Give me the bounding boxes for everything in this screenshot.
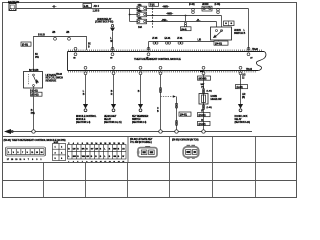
horn relay feed — [95, 18, 115, 50]
horn high/low H1 — [199, 94, 208, 105]
module bottom pins — [84, 66, 242, 74]
connector box E-01 inline — [83, 4, 92, 8]
connector table B — [53, 144, 66, 161]
svg-text:JT-05: JT-05 — [152, 38, 158, 40]
svg-text:CYL SW (IN TCH/REL): CYL SW (IN TCH/REL) — [130, 142, 152, 144]
ground bus wire — [7, 131, 252, 133]
column x240 door lock relay — [240, 75, 242, 105]
svg-text:10A: 10A — [138, 26, 142, 29]
horn sw connector face — [183, 145, 199, 159]
svg-text:W/Y: W/Y — [200, 71, 204, 73]
module top pins — [74, 47, 250, 55]
svg-text:(E-02): (E-02) — [22, 43, 28, 46]
label box A-05 — [236, 85, 248, 89]
svg-text:MODULE: MODULE — [76, 119, 86, 121]
liftgate connector face — [137, 146, 157, 157]
liftgate key cylinder switch S2 — [24, 70, 43, 88]
svg-text:W: W — [122, 156, 124, 158]
svg-text:KEY REMINDER: KEY REMINDER — [132, 116, 149, 118]
svg-text:(1-01): (1-01) — [207, 91, 213, 93]
inline connector 2cell box — [224, 21, 235, 26]
svg-text:(SECTION 2-4): (SECTION 2-4) — [132, 121, 146, 124]
bus junction x33 — [32, 130, 35, 133]
dashed link — [161, 96, 174, 98]
theft-deterrent control module U1 — [56, 49, 266, 76]
svg-text:BW: BW — [73, 156, 76, 158]
svg-text:JT-01: JT-01 — [177, 38, 183, 40]
bus junction x160 — [159, 130, 162, 133]
svg-text:TB-03: TB-03 — [56, 74, 63, 76]
bus junction x176 — [175, 130, 178, 133]
ground symbol — [4, 129, 11, 134]
column x160 ground path — [160, 75, 162, 132]
label box E-02 — [21, 42, 31, 46]
wire row y22 — [186, 21, 217, 23]
svg-text:(24-01): (24-01) — [199, 114, 206, 117]
connector F-02 — [189, 4, 195, 14]
connector drop JT-05 — [152, 38, 158, 44]
svg-text:TB-02: TB-02 — [252, 49, 259, 51]
svg-text:(1-01): (1-01) — [207, 107, 213, 109]
svg-text:(24-0): (24-0) — [181, 28, 187, 31]
svg-text:SWITCH: SWITCH — [234, 32, 243, 35]
svg-text:THEFT-DETERRENT CONTROL MODULE: THEFT-DETERRENT CONTROL MODULE — [134, 57, 181, 61]
output column x140.5 — [140, 75, 142, 105]
svg-text:(SECTION 4-24): (SECTION 4-24) — [235, 121, 251, 124]
svg-text:(24-01): (24-01) — [180, 113, 187, 116]
svg-text:(5X-02): (5X-02) — [31, 93, 38, 96]
svg-text:LW: LW — [95, 149, 98, 151]
output column x85.5 — [85, 75, 87, 105]
svg-text:W/Y: W/Y — [201, 84, 205, 86]
bottom grid — [3, 163, 297, 198]
svg-text:BW: BW — [113, 149, 116, 151]
svg-text:(A-05): (A-05) — [237, 86, 243, 89]
caption separator — [3, 136, 297, 138]
junction block boundary (dashed) — [152, 5, 154, 28]
svg-text:TB-04: TB-04 — [246, 68, 253, 71]
label box 24-01 — [179, 112, 191, 116]
svg-text:LW: LW — [86, 156, 89, 158]
fuse 15A row y8.5 — [137, 4, 147, 11]
svg-text:(24-02): (24-02) — [215, 42, 222, 45]
wire to ground bus — [33, 86, 35, 131]
label box 24-02 horn col — [198, 121, 211, 125]
connector drop EX-01 — [165, 38, 172, 44]
svg-text:(W2-05): (W2-05) — [199, 77, 207, 80]
svg-text:E-01 B: E-01 B — [38, 34, 45, 37]
svg-text:(5X-02) LIFTGATE KEY: (5X-02) LIFTGATE KEY — [130, 138, 153, 141]
svg-text:–B–: –B– — [52, 6, 57, 9]
table band dividers — [212, 137, 214, 163]
svg-text:E-01: E-01 — [150, 4, 155, 7]
wire row B to horn switch — [147, 15, 222, 17]
column x176 ground path — [176, 97, 178, 132]
svg-text:L/R: L/R — [242, 94, 246, 96]
svg-text:DOOR LOCK: DOOR LOCK — [235, 116, 248, 118]
svg-text:MODULE CONTROL: MODULE CONTROL — [76, 116, 97, 118]
svg-text:LW: LW — [73, 149, 76, 151]
fuse feed bus — [130, 9, 138, 22]
svg-text:L/G: L/G — [242, 75, 246, 77]
connector label box E-01 — [149, 3, 159, 7]
svg-text:HIGH/LOW: HIGH/LOW — [211, 99, 223, 101]
svg-text:HEADLIGHT: HEADLIGHT — [104, 115, 117, 118]
svg-text:1.25 B: 1.25 B — [93, 9, 100, 12]
svg-text:J/B: J/B — [52, 32, 56, 34]
column x203 horn high/low — [203, 75, 205, 132]
label box 24-01 horn col — [198, 113, 211, 117]
svg-text:HORN: HORN — [202, 4, 209, 6]
svg-text:–W/R–: –W/R– — [162, 6, 170, 9]
connector table C — [68, 145, 127, 160]
svg-text:(B): (B) — [242, 97, 245, 99]
horn switch S1 — [211, 27, 232, 42]
svg-text:RELAY: RELAY — [235, 118, 243, 121]
wire row C — [147, 21, 186, 23]
svg-text:SWITCH: SWITCH — [132, 119, 141, 121]
wire battery branch — [34, 37, 87, 72]
svg-text:HORN: HORN — [211, 96, 218, 98]
header cell horn sw connector — [169, 137, 171, 163]
label box 24-02 — [181, 27, 192, 31]
connector table A — [6, 147, 46, 156]
wire battery feed — [16, 8, 130, 10]
svg-text:EX-01: EX-01 — [165, 38, 172, 40]
label box 24-02 under switch — [214, 41, 228, 45]
header cell liftgate connector — [127, 137, 129, 163]
connector drop JT-01 — [177, 38, 183, 44]
output column x113.5 — [113, 75, 115, 105]
svg-text:J/B: J/B — [66, 32, 70, 34]
svg-text:(24-02): (24-02) — [199, 123, 206, 126]
svg-text:REVERSE: REVERSE — [46, 80, 57, 83]
svg-text:(SECTION 2-6, 21): (SECTION 2-6, 21) — [104, 122, 122, 124]
svg-text:(5X-03) HORN SW (IN TCH): (5X-03) HORN SW (IN TCH) — [172, 139, 199, 141]
svg-text:RELAY: RELAY — [104, 118, 112, 121]
label box W2-05 — [198, 76, 211, 80]
wire row A to horn relay — [147, 8, 249, 10]
svg-text:–W/B–: –W/B– — [166, 13, 174, 16]
svg-text:–B/R–: –B/R– — [161, 19, 168, 22]
svg-text:–B–: –B– — [196, 19, 201, 22]
link connector pair — [185, 16, 187, 22]
horn relay contact — [202, 4, 212, 11]
fuse 15A row y14.5 — [137, 10, 147, 17]
svg-text:(F-02): (F-02) — [189, 4, 195, 6]
wire horn switch output — [149, 41, 215, 43]
svg-text:(JOINT BOX F-01): (JOINT BOX F-01) — [95, 21, 113, 24]
label box 5X-02 — [31, 92, 43, 96]
svg-text:AD 4: AD 4 — [94, 5, 100, 8]
fuse 10A row y21.5 — [137, 17, 147, 29]
connector F-01 — [215, 4, 221, 14]
battery B1 — [8, 0, 20, 10]
svg-text:(SECTION 1-4): (SECTION 1-4) — [76, 121, 90, 124]
junction x185 — [185, 15, 187, 17]
svg-text:L/B: L/B — [198, 39, 202, 42]
svg-text:(F-01): (F-01) — [215, 4, 221, 6]
bus junction x203 — [202, 130, 205, 133]
svg-text:E-01: E-01 — [84, 5, 89, 8]
